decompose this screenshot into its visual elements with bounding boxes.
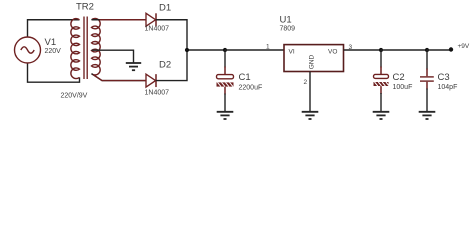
transformer TR2 secondary winding (92, 18, 101, 75)
svg-text:1: 1 (266, 44, 270, 51)
node: +9V output terminal (449, 47, 453, 51)
svg-text:C2: C2 (393, 72, 405, 83)
ground (C2) (373, 112, 390, 119)
wire: C3 node to +9V terminal (427, 49, 451, 51)
wire: D2 cathode to rectifier node (156, 50, 187, 81)
wire: D1 cathode to rectifier node (156, 20, 187, 50)
svg-text:C3: C3 (438, 72, 450, 83)
wire: C1 node to U1 VI pin (225, 49, 284, 51)
svg-text:3: 3 (349, 44, 353, 51)
wire: V1 bottom to TR2 primary bottom (28, 63, 80, 82)
ground (C3) (419, 112, 436, 119)
transformer TR2 primary winding (71, 19, 80, 79)
svg-text:TR2: TR2 (76, 2, 94, 13)
svg-text:220V: 220V (45, 48, 62, 55)
wire: U1 GND pin to ground (309, 72, 311, 112)
regulator U1 7809 (284, 45, 344, 72)
wire: secondary center tap to ground (92, 50, 134, 63)
transformer TR2 core (84, 17, 87, 80)
svg-text:104pF: 104pF (438, 84, 458, 91)
ground (center tap) (126, 63, 141, 70)
pin: TR2 secondary top / D1 anode (maroon) (100, 19, 147, 21)
wire: V1 top to TR2 primary top (28, 20, 80, 37)
svg-text:D1: D1 (159, 3, 171, 14)
wire: rectifier node to C1 (187, 49, 225, 51)
wire: secondary bottom to D2 anode (92, 74, 147, 81)
ground (C1) (217, 112, 234, 119)
wire: U1 VO pin to output rail (344, 49, 382, 51)
svg-text:1N4007: 1N4007 (145, 90, 170, 97)
ground (U1) (302, 112, 319, 119)
svg-text:D2: D2 (159, 60, 171, 71)
junction: C3 node (425, 48, 429, 52)
wire: C2 node to C3 node (381, 49, 427, 51)
capacitor C1 (217, 50, 234, 111)
svg-text:V1: V1 (45, 37, 57, 48)
diode D1 (146, 13, 156, 26)
svg-text:220V/9V: 220V/9V (61, 93, 88, 100)
ac source V1 (15, 37, 41, 63)
svg-text:1N4007: 1N4007 (145, 26, 170, 33)
svg-text:7809: 7809 (280, 25, 296, 32)
svg-text:2200uF: 2200uF (239, 84, 263, 91)
svg-text:GND: GND (309, 54, 316, 69)
junction: C2 node (379, 48, 383, 52)
svg-text:100uF: 100uF (393, 84, 413, 91)
wire: secondary top to D1 anode (92, 19, 147, 21)
junction: C1 node (223, 48, 227, 52)
svg-text:2: 2 (304, 79, 308, 86)
pin: TR2 secondary bottom / D2 anode (maroon) (93, 75, 146, 81)
svg-text:C1: C1 (239, 72, 251, 83)
svg-text:+9V: +9V (458, 43, 470, 50)
svg-text:U1: U1 (280, 15, 292, 26)
svg-text:VO: VO (328, 49, 337, 56)
junction: rectifier output node (185, 48, 189, 52)
capacitor C3 (420, 50, 434, 111)
capacitor C2 (374, 50, 390, 111)
svg-text:VI: VI (289, 49, 295, 56)
diode D2 (146, 74, 156, 87)
